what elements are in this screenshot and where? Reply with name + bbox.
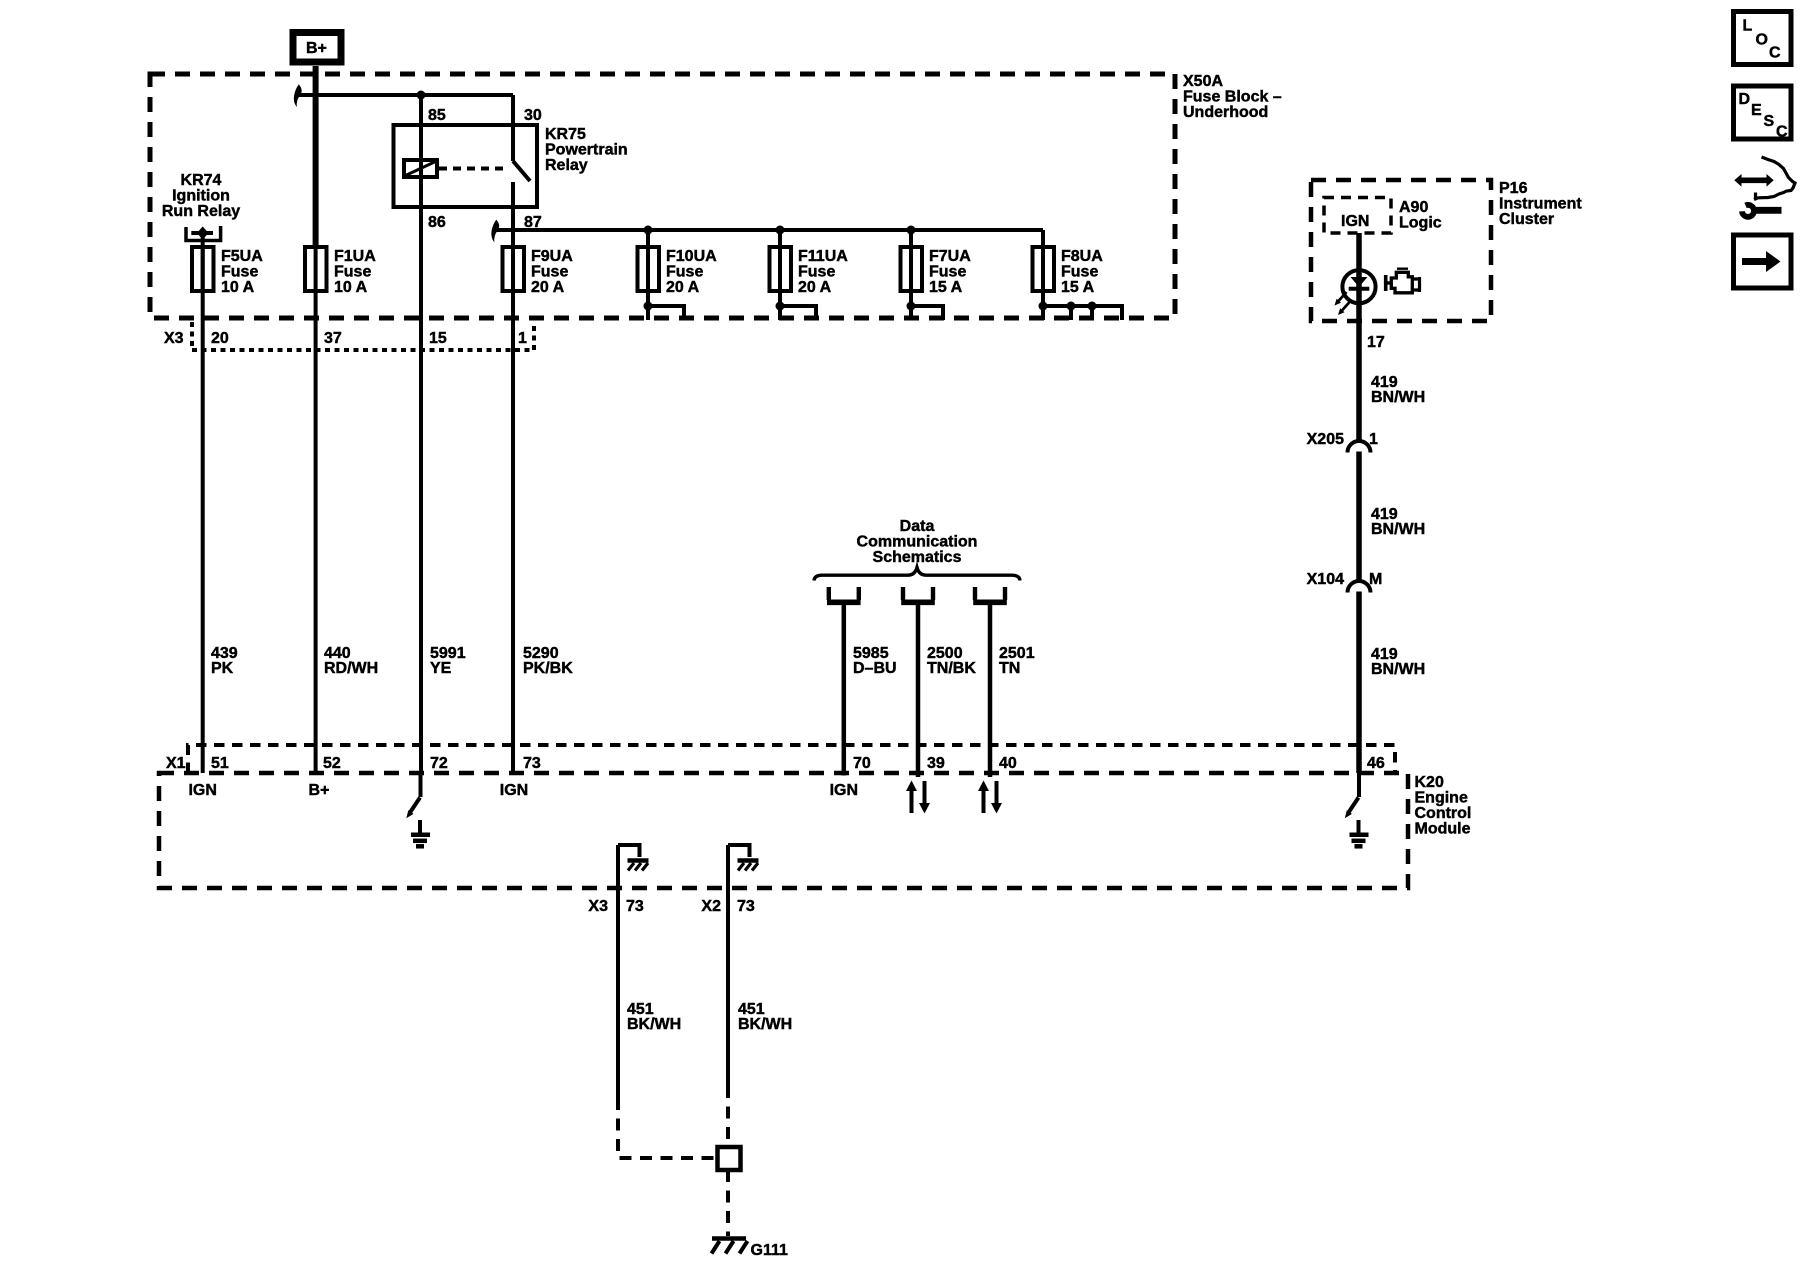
svg-text:F10UA: F10UA — [666, 248, 717, 265]
svg-text:Engine: Engine — [1415, 790, 1468, 807]
wire F8UA output stubs — [1039, 302, 1123, 321]
brace over data communication connectors — [814, 568, 1020, 581]
connector cup node 5985 — [829, 587, 859, 600]
relay KR75 box — [394, 125, 538, 207]
svg-text:20 A: 20 A — [531, 279, 565, 296]
connector X2 pin 73 labels — [701, 898, 754, 915]
svg-text:K20: K20 — [1415, 774, 1444, 791]
fuse F10UA 20A — [638, 230, 718, 320]
svg-text:Fuse: Fuse — [929, 264, 966, 281]
chassis ground pigtail X3 pin 73 — [618, 845, 649, 871]
svg-text:F11UA: F11UA — [798, 248, 848, 265]
node bus junction F11UA — [776, 226, 785, 235]
svg-text:IGN: IGN — [188, 782, 216, 799]
svg-text:Ignition: Ignition — [172, 188, 230, 205]
svg-text:Fuse: Fuse — [1061, 264, 1098, 281]
svg-text:IGN: IGN — [1341, 213, 1369, 230]
svg-text:PK: PK — [211, 660, 234, 677]
icon forward arrow box — [1734, 235, 1792, 288]
relay KR74 contact symbol — [186, 226, 221, 241]
svg-text:Fuse: Fuse — [798, 264, 835, 281]
svg-text:BK/WH: BK/WH — [738, 1016, 792, 1033]
wire 419 BN/WH between X205 and X104 — [1356, 452, 1362, 582]
icon LOC box — [1734, 12, 1792, 65]
continuation arrow at branch start — [294, 84, 302, 107]
svg-text:51: 51 — [211, 755, 229, 772]
fuse F1UA 10A — [305, 247, 376, 296]
svg-text:YE: YE — [430, 660, 452, 677]
svg-text:KR74: KR74 — [181, 172, 222, 189]
svg-text:52: 52 — [323, 755, 341, 772]
label 419 BN/WH upper — [1371, 374, 1425, 406]
label 451 BK/WH right — [738, 1001, 792, 1033]
battery feed B+ terminal box — [293, 33, 341, 63]
continuation arrow at bus start — [491, 220, 499, 243]
svg-text:73: 73 — [737, 898, 755, 915]
inline connector X104 pin M — [1307, 571, 1383, 593]
svg-text:D: D — [1739, 91, 1751, 108]
label 440 RD/WH — [324, 645, 378, 677]
wire circuit 439 PK (F5UA pin 20 to K20 pin 51) — [201, 246, 205, 773]
svg-text:X205: X205 — [1307, 431, 1344, 448]
svg-text:39: 39 — [927, 755, 945, 772]
node IGN dashed box — [1324, 198, 1391, 234]
svg-text:A90: A90 — [1399, 199, 1428, 216]
svg-text:Fuse: Fuse — [666, 264, 703, 281]
svg-text:PK/BK: PK/BK — [523, 660, 573, 677]
svg-text:20: 20 — [211, 330, 229, 347]
svg-text:P16: P16 — [1499, 180, 1528, 197]
label 2500 TN/BK — [927, 645, 976, 677]
engine control module K20 dashed box — [159, 773, 1408, 888]
label 419 BN/WH lower — [1371, 646, 1425, 678]
svg-text:F1UA: F1UA — [334, 248, 376, 265]
label KR75 Powertrain Relay — [545, 126, 628, 174]
svg-text:D–BU: D–BU — [853, 660, 897, 677]
svg-text:RD/WH: RD/WH — [324, 660, 378, 677]
wire 451 BK/WH from X2 pin 73 — [726, 845, 730, 1086]
wire pin 86 down through X3 pin 15 — [419, 168, 423, 773]
svg-text:X104: X104 — [1307, 571, 1344, 588]
label Data Communication Schematics — [857, 518, 978, 566]
svg-text:F5UA: F5UA — [221, 248, 263, 265]
bidirectional data arrows pin 39 — [906, 781, 930, 814]
svg-text:Powertrain: Powertrain — [545, 142, 628, 159]
svg-text:37: 37 — [324, 330, 342, 347]
label A90 Logic — [1399, 199, 1442, 232]
bidirectional data arrows pin 40 — [978, 781, 1002, 814]
svg-text:C: C — [1769, 45, 1781, 62]
node bus junction F7UA — [907, 226, 916, 235]
wire pin 85 drop — [419, 95, 423, 168]
svg-text:E: E — [1751, 102, 1762, 119]
svg-text:15 A: 15 A — [929, 279, 963, 296]
svg-text:Fuse: Fuse — [334, 264, 371, 281]
connector cup node 2501 — [975, 587, 1005, 600]
svg-text:Instrument: Instrument — [1499, 196, 1582, 213]
ground G111 symbol — [712, 1239, 748, 1254]
svg-text:M: M — [1369, 571, 1382, 588]
chassis ground pigtail X2 pin 73 — [728, 845, 759, 871]
fuse block X50A dashed box — [150, 74, 1175, 318]
svg-text:Fuse Block –: Fuse Block – — [1183, 89, 1282, 106]
label K20 Engine Control Module — [1415, 774, 1472, 838]
wire pin 30 drop — [511, 95, 515, 161]
svg-text:F9UA: F9UA — [531, 248, 573, 265]
svg-text:15 A: 15 A — [1061, 279, 1095, 296]
earth ground pin 46 — [1350, 820, 1369, 846]
instrument cluster P16 dashed box — [1311, 180, 1491, 321]
svg-text:Data: Data — [900, 518, 935, 535]
wire 87 feed bus to fuses — [496, 228, 1043, 232]
svg-text:Run Relay: Run Relay — [162, 203, 240, 220]
node bus junction F10UA — [644, 226, 653, 235]
svg-text:B+: B+ — [306, 40, 327, 57]
svg-text:70: 70 — [853, 755, 871, 772]
svg-text:B+: B+ — [309, 782, 330, 799]
earth ground pin 72 — [411, 820, 430, 846]
fuse F7UA 15A — [901, 230, 972, 320]
svg-text:IGN: IGN — [500, 782, 528, 799]
wire circuit 440 RD/WH (F1UA pin 37 to K20 pin 52) — [314, 246, 318, 773]
svg-text:F7UA: F7UA — [929, 248, 971, 265]
connector cup node 2500 — [903, 587, 933, 600]
svg-text:BN/WH: BN/WH — [1371, 389, 1425, 406]
icon DESC box — [1734, 86, 1792, 141]
wire KR74 contact to F5UA and pin 20 — [201, 233, 205, 292]
svg-text:20 A: 20 A — [666, 279, 700, 296]
indicator LED A90 — [1335, 270, 1376, 315]
connector X1 dotted outline — [188, 745, 1395, 773]
label 5991 YE — [430, 645, 466, 677]
svg-text:X50A: X50A — [1183, 73, 1223, 90]
wire branch to relay KR75 pins 85 and 30 — [299, 93, 514, 97]
label 451 BK/WH left — [627, 1001, 681, 1033]
icon vehicle outline with two-way arrow and wrench — [1734, 157, 1795, 217]
dashed wire splice to G111 — [726, 1170, 730, 1236]
svg-text:C: C — [1776, 124, 1788, 141]
wire 419 BN/WH to K20 pin 46 — [1356, 592, 1362, 774]
svg-text:KR75: KR75 — [545, 126, 586, 143]
label X50A Fuse Block - Underhood — [1183, 73, 1282, 121]
svg-text:Module: Module — [1415, 821, 1471, 838]
label 5985 D-BU — [853, 645, 897, 677]
svg-text:TN/BK: TN/BK — [927, 660, 976, 677]
engine icon — [1386, 269, 1420, 293]
svg-text:17: 17 — [1367, 334, 1385, 351]
fuse F5UA 10A — [192, 247, 263, 296]
wire circuit 5985 D-BU to K20 pin 70 — [842, 600, 847, 776]
svg-text:Fuse: Fuse — [531, 264, 568, 281]
svg-text:Logic: Logic — [1399, 215, 1442, 232]
dashed wire 451 right to splice — [726, 1086, 730, 1145]
svg-text:73: 73 — [626, 898, 644, 915]
connector X3 dotted outline — [192, 322, 534, 350]
label 439 PK — [211, 645, 238, 677]
svg-text:86: 86 — [428, 214, 446, 231]
svg-text:S: S — [1764, 113, 1775, 130]
fuse F8UA 15A — [1033, 230, 1104, 320]
connector X3 pin 73 labels — [588, 898, 643, 915]
svg-text:X3: X3 — [588, 898, 608, 915]
svg-text:Fuse: Fuse — [221, 264, 258, 281]
splice block — [718, 1147, 741, 1170]
wire F10UA output stubs — [644, 302, 685, 321]
label P16 Instrument Cluster — [1499, 180, 1582, 228]
relay KR75 coil-contact dashed link — [439, 167, 508, 171]
wire circuit 2500 TN/BK to K20 pin 39 — [916, 600, 921, 777]
wire B+ vertical feed to F1UA and pin 37 — [313, 66, 319, 246]
svg-text:Communication: Communication — [857, 534, 978, 551]
relay KR74 label Ignition Run Relay — [162, 172, 240, 220]
pin 72 internal ground switch blade — [406, 773, 420, 818]
svg-text:40: 40 — [999, 755, 1017, 772]
svg-text:Control: Control — [1415, 805, 1472, 822]
svg-text:BN/WH: BN/WH — [1371, 521, 1425, 538]
svg-text:46: 46 — [1367, 755, 1385, 772]
label 2501 TN — [999, 645, 1035, 677]
wire 451 BK/WH from X3 pin 73 — [616, 845, 620, 1098]
wire circuit 5290 PK/BK (F9UA pin 1 to K20 pin 73) — [511, 246, 515, 773]
wire F11UA output stubs — [776, 302, 817, 321]
wire IGN to indicator and pin 17 — [1356, 233, 1362, 442]
node junction of 85 wire on branch — [417, 91, 426, 100]
svg-text:85: 85 — [428, 107, 446, 124]
svg-text:BN/WH: BN/WH — [1371, 661, 1425, 678]
wire circuit 2501 TN to K20 pin 40 — [988, 600, 993, 777]
svg-text:10 A: 10 A — [221, 279, 255, 296]
svg-text:F8UA: F8UA — [1061, 248, 1103, 265]
pin 46 internal ground switch blade — [1345, 773, 1359, 818]
svg-text:BK/WH: BK/WH — [627, 1016, 681, 1033]
svg-text:X1: X1 — [166, 755, 186, 772]
svg-text:30: 30 — [524, 107, 542, 124]
fuse F9UA 20A — [503, 247, 574, 296]
svg-text:Relay: Relay — [545, 157, 588, 174]
svg-text:X2: X2 — [701, 898, 721, 915]
svg-text:10 A: 10 A — [334, 279, 368, 296]
label 5290 PK/BK — [523, 645, 573, 677]
svg-text:IGN: IGN — [830, 782, 858, 799]
fuse F11UA 20A — [770, 230, 849, 320]
svg-text:72: 72 — [430, 755, 448, 772]
svg-text:1: 1 — [518, 330, 527, 347]
svg-text:X3: X3 — [164, 330, 184, 347]
svg-text:G111: G111 — [751, 1242, 788, 1259]
svg-text:73: 73 — [523, 755, 541, 772]
svg-text:Underhood: Underhood — [1183, 104, 1268, 121]
svg-text:L: L — [1743, 18, 1753, 35]
svg-text:15: 15 — [429, 330, 447, 347]
label 419 BN/WH middle — [1371, 506, 1425, 538]
svg-text:TN: TN — [999, 660, 1020, 677]
svg-text:20 A: 20 A — [798, 279, 832, 296]
relay KR75 coil — [404, 160, 437, 177]
svg-text:Cluster: Cluster — [1499, 211, 1554, 228]
relay KR75 contact blade — [513, 161, 530, 181]
wire F7UA output stubs — [907, 302, 944, 321]
inline connector X205 pin 1 — [1307, 431, 1378, 453]
wire pin 87 down to F9UA — [511, 182, 515, 246]
svg-text:O: O — [1756, 32, 1768, 49]
dashed wire 451 left to splice — [618, 1098, 714, 1158]
